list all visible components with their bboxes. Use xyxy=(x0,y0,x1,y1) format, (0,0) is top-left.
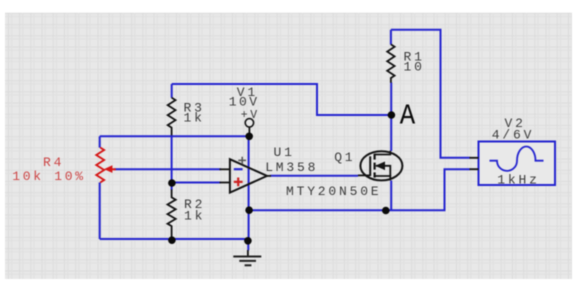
junction ground node xyxy=(244,237,252,245)
wire: R4 wiper to op-amp inverting input xyxy=(114,168,221,170)
wire: R1 top over to V2 plus terminal xyxy=(391,30,470,158)
node A junction dot xyxy=(388,111,396,119)
source V2 xyxy=(470,142,556,186)
svg-text:U1: U1 xyxy=(274,145,295,160)
potentiometer R4 xyxy=(96,148,116,183)
svg-text:10V: 10V xyxy=(229,94,260,109)
wire: R3 top lead stub xyxy=(171,84,173,98)
wire: +V rail to R4 top corner xyxy=(100,135,250,137)
svg-text:1k: 1k xyxy=(184,111,205,126)
svg-text:1k: 1k xyxy=(184,208,205,223)
junction plus-input node xyxy=(168,179,176,187)
wire: bottom ground rail xyxy=(100,238,248,240)
resistor R3 xyxy=(168,98,176,136)
svg-text:Q1: Q1 xyxy=(334,150,355,165)
svg-text:LM358: LM358 xyxy=(265,160,318,175)
wire: top rail from R3 top right then down to node A xyxy=(172,84,392,115)
wire: R3 bottom down to plus-input node xyxy=(171,135,173,183)
svg-text:A: A xyxy=(400,100,416,133)
wire: Q1 source down to return rail xyxy=(390,181,392,211)
junction +V node xyxy=(245,133,253,141)
wire: R1 top lead stub xyxy=(390,30,392,45)
svg-text:1kHz: 1kHz xyxy=(497,172,539,187)
svg-text:10: 10 xyxy=(404,59,425,74)
transistor Q1 xyxy=(358,151,402,181)
wire: R2 top stub from plus node xyxy=(171,183,173,190)
junction R2 bottom on ground rail xyxy=(168,236,176,244)
wire: op-amp output to Q1 gate xyxy=(270,175,358,177)
svg-text:MTY20N50E: MTY20N50E xyxy=(286,184,381,199)
wire: plus node to op-amp non-inverting input xyxy=(172,182,221,184)
resistor R1 xyxy=(387,44,394,82)
wire: op-amp supply vertical +V to ground xyxy=(248,136,250,239)
op-amp U1 xyxy=(220,157,272,193)
junction supply to return rail xyxy=(245,206,253,214)
wire: R1 bottom down to Q1 drain xyxy=(390,83,392,152)
svg-text:10k 10%: 10k 10% xyxy=(12,169,86,184)
wire: R4 bottom down to ground rail xyxy=(99,183,101,240)
ground xyxy=(233,239,261,265)
junction Q1 source node xyxy=(382,207,390,215)
svg-text:4/6V: 4/6V xyxy=(492,128,534,143)
power terminal +V of V1 xyxy=(245,119,253,136)
wire: R4 top stub xyxy=(99,136,101,147)
svg-text:R4: R4 xyxy=(43,155,64,170)
svg-text:+V: +V xyxy=(241,109,260,122)
resistor R2 xyxy=(168,190,176,239)
wire: source return rail to V2 minus terminal xyxy=(249,169,470,210)
